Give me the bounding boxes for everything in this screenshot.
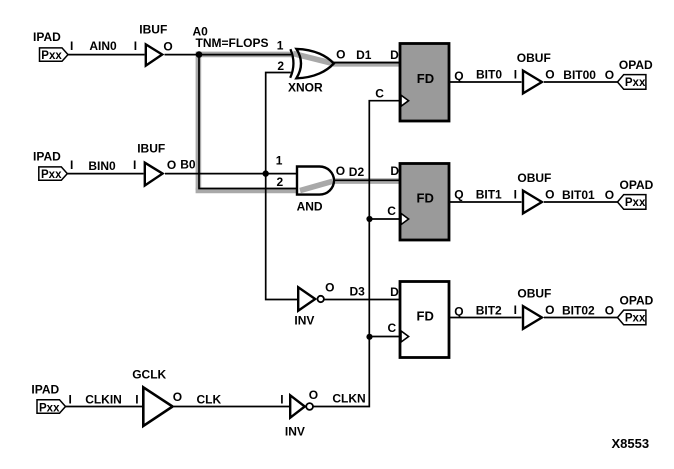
svg-text:FD: FD: [417, 71, 434, 86]
node A0 junction dot: [196, 51, 203, 58]
opad OPAD1 symbol: [618, 75, 646, 90]
wire IPAD2 to IBUF2 (BIN0): [67, 173, 143, 175]
svg-text:OBUF: OBUF: [517, 171, 551, 185]
svg-text:XNOR: XNOR: [288, 81, 323, 95]
svg-text:2: 2: [277, 59, 284, 73]
xnor extra input arc: [290, 49, 293, 78]
inv INV3 triangle: [298, 287, 315, 310]
xnor highlighted diagonal: [298, 55, 333, 64]
svg-text:O: O: [325, 280, 334, 294]
svg-text:Q: Q: [454, 69, 463, 83]
svg-text:BIN0: BIN0: [88, 159, 116, 173]
flip-flop FD1 box (gray): [400, 44, 449, 122]
svg-text:O: O: [605, 188, 614, 202]
svg-text:D1: D1: [356, 48, 372, 62]
svg-text:Q: Q: [454, 305, 463, 319]
wire CLKN trunk from INV4 up to FD1 C: [313, 101, 400, 407]
wire AND output D2 to FD2 D: [334, 179, 400, 181]
svg-text:I: I: [70, 158, 73, 172]
ibuf IBUF2 triangle: [145, 163, 163, 186]
svg-text:1: 1: [277, 39, 284, 53]
svg-text:INV: INV: [294, 314, 314, 328]
and highlighted diagonal: [300, 181, 333, 190]
svg-text:I: I: [70, 39, 73, 53]
svg-text:O: O: [163, 40, 172, 54]
svg-text:Q: Q: [454, 187, 463, 201]
svg-text:OPAD: OPAD: [619, 58, 653, 72]
svg-text:O: O: [605, 68, 614, 82]
inv INV3 bubble: [318, 296, 324, 302]
svg-text:Pxx: Pxx: [625, 77, 646, 89]
svg-text:FD: FD: [417, 191, 434, 206]
svg-text:Pxx: Pxx: [625, 312, 646, 324]
svg-text:CLKIN: CLKIN: [85, 393, 122, 407]
svg-text:Pxx: Pxx: [41, 169, 62, 181]
svg-text:BIT0: BIT0: [476, 68, 502, 82]
opad OPAD3 symbol: [618, 310, 646, 325]
obuf OBUF2 triangle: [523, 191, 542, 214]
svg-text:OPAD: OPAD: [620, 178, 654, 192]
wire IBUF1 output to junction A0 and XNOR input 1: [165, 54, 292, 56]
svg-text:I: I: [135, 393, 138, 407]
ipad IPAD1 symbol: [40, 48, 69, 61]
svg-text:BIT2: BIT2: [476, 304, 502, 318]
svg-text:D: D: [390, 164, 399, 178]
highlighted net A0 to XNOR.1 (gray): [196, 52, 400, 191]
svg-text:D: D: [390, 48, 399, 62]
svg-text:Pxx: Pxx: [41, 50, 62, 62]
svg-text:I: I: [133, 158, 136, 172]
svg-text:O: O: [173, 390, 182, 404]
svg-text:C: C: [388, 321, 397, 335]
wire IBUF2 output B0 to junction and AND input 1: [165, 173, 297, 175]
svg-text:O: O: [545, 68, 554, 82]
svg-text:OBUF: OBUF: [517, 287, 551, 301]
wire B0 branch down to INV input: [266, 174, 298, 300]
svg-text:BIT00: BIT00: [563, 68, 596, 82]
svg-text:D2: D2: [349, 165, 365, 179]
svg-text:I: I: [280, 393, 283, 407]
svg-text:1: 1: [276, 154, 283, 168]
svg-text:I: I: [69, 393, 72, 407]
svg-text:O: O: [605, 304, 614, 318]
svg-text:O: O: [167, 158, 176, 172]
svg-text:IPAD: IPAD: [31, 383, 59, 397]
svg-text:I: I: [514, 303, 517, 317]
svg-text:CLKN: CLKN: [332, 392, 365, 406]
svg-text:O: O: [336, 164, 345, 178]
and gate body: [297, 167, 334, 195]
FD1 clock wedge: [401, 95, 409, 106]
svg-text:B0: B0: [180, 158, 196, 172]
wire CLKN branch to FD2 C: [369, 218, 400, 220]
svg-text:AND: AND: [297, 199, 323, 213]
xnor gate U-XNOR body: [296, 49, 333, 78]
svg-text:BIT1: BIT1: [476, 188, 502, 202]
svg-text:Pxx: Pxx: [39, 402, 60, 414]
svg-text:INV: INV: [285, 425, 305, 439]
svg-text:IBUF: IBUF: [137, 141, 165, 155]
svg-text:2: 2: [277, 175, 284, 189]
wire GCLK output CLK to INV4: [174, 406, 289, 408]
svg-text:BIT01: BIT01: [562, 188, 595, 202]
svg-text:I: I: [514, 188, 517, 202]
opad OPAD2 symbol: [618, 195, 646, 210]
svg-text:FD: FD: [417, 309, 434, 324]
wire A0 vertical branch down and to AND input 2: [199, 55, 298, 189]
wire OBUF1 to OPAD1 (BIT00): [544, 81, 618, 83]
svg-text:TNM=FLOPS: TNM=FLOPS: [196, 36, 269, 50]
xnor outline: [296, 49, 333, 78]
svg-text:CLK: CLK: [197, 393, 222, 407]
svg-text:D3: D3: [350, 285, 366, 299]
svg-text:IPAD: IPAD: [33, 150, 61, 164]
svg-text:I: I: [134, 39, 137, 53]
wire B0 branch up to XNOR input 2: [266, 73, 291, 174]
obuf OBUF3 triangle: [523, 306, 542, 329]
obuf OBUF1 triangle: [523, 71, 542, 94]
wire XNOR output D1 to FD1 D: [334, 62, 401, 64]
inv INV4 bubble: [306, 403, 313, 410]
and outline: [297, 167, 334, 195]
svg-text:O: O: [545, 303, 554, 317]
wire OBUF3 to OPAD3 (BIT02): [544, 317, 618, 319]
wire INV output D3 to FD3 D: [324, 299, 400, 301]
svg-text:IPAD: IPAD: [33, 30, 61, 44]
wire OBUF2 to OPAD2 (BIT01): [544, 201, 618, 203]
svg-text:OPAD: OPAD: [620, 293, 654, 307]
node CLKN junction dot at FD2 C: [366, 216, 372, 222]
svg-text:O: O: [336, 47, 345, 61]
wire IPAD1 to IBUF1 (AIN0): [68, 54, 145, 56]
svg-text:Pxx: Pxx: [625, 197, 646, 209]
node B0 junction dot: [263, 170, 269, 176]
svg-text:I: I: [514, 68, 517, 82]
svg-text:D: D: [390, 285, 399, 299]
svg-text:OBUF: OBUF: [517, 51, 551, 65]
svg-text:IBUF: IBUF: [139, 22, 167, 36]
wire CLKN branch to FD3 C: [369, 336, 400, 338]
node CLKN junction dot at FD3 C: [366, 334, 372, 340]
svg-text:C: C: [387, 204, 396, 218]
ibuf IBUF1 triangle: [146, 44, 162, 65]
FD2 clock wedge: [401, 213, 409, 224]
flip-flop FD3 box (white): [400, 282, 449, 358]
wire FD2 Q to OBUF2 (BIT1): [449, 201, 522, 203]
wire IPAD4 to GCLK (CLKIN): [66, 406, 143, 408]
svg-text:AIN0: AIN0: [89, 39, 117, 53]
flip-flop FD2 box (gray): [400, 164, 449, 241]
FD3 clock wedge: [401, 331, 409, 342]
svg-text:O: O: [309, 388, 318, 402]
gclk GCLK triangle: [143, 387, 172, 426]
ipad IPAD2 symbol: [39, 167, 68, 180]
inv INV4 triangle: [290, 395, 305, 417]
svg-text:C: C: [375, 86, 384, 100]
svg-text:X8553: X8553: [612, 436, 650, 451]
ipad IPAD4 symbol: [37, 400, 66, 413]
svg-text:GCLK: GCLK: [132, 367, 166, 381]
svg-text:O: O: [545, 188, 554, 202]
wire FD3 Q to OBUF3 (BIT2): [449, 317, 522, 319]
svg-text:BIT02: BIT02: [562, 304, 595, 318]
wire FD1 Q to OBUF1 (BIT0): [449, 81, 522, 83]
